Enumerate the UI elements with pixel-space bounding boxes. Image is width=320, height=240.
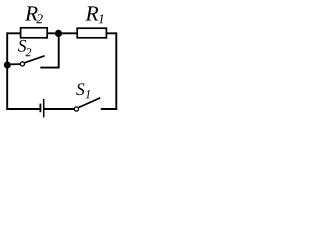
wire: left side bbox=[6, 32, 8, 109]
battery cell: long plate bbox=[43, 99, 45, 117]
wire: S1 fixed contact to bottom right corner bbox=[101, 108, 117, 110]
label S2 bbox=[18, 40, 31, 56]
resistor R2 body bbox=[21, 28, 48, 38]
wire: bottom left segment to battery bbox=[6, 108, 40, 110]
switch S2 blade (open) bbox=[24, 56, 44, 63]
label S1 bbox=[76, 83, 90, 98]
wire: top side bbox=[7, 32, 116, 34]
wire: node B to S2 pivot bbox=[7, 63, 20, 65]
switch S1 blade (open) bbox=[79, 98, 101, 108]
switch S2 pivot circle bbox=[20, 62, 24, 66]
wire: S2 branch, fixed contact lead and vertical up to node A bbox=[40, 34, 58, 68]
battery cell: short plate bbox=[39, 104, 41, 113]
node B: junction dot on left wire bbox=[4, 62, 11, 69]
resistor R1 body bbox=[77, 28, 106, 38]
label R1 bbox=[85, 6, 103, 23]
node A: junction dot between R2 and R1 bbox=[55, 30, 62, 37]
wire: battery to S1 pivot bbox=[44, 108, 75, 110]
switch S1 pivot circle bbox=[74, 107, 78, 111]
label R2 bbox=[25, 6, 43, 23]
wire: right side bbox=[115, 32, 117, 110]
